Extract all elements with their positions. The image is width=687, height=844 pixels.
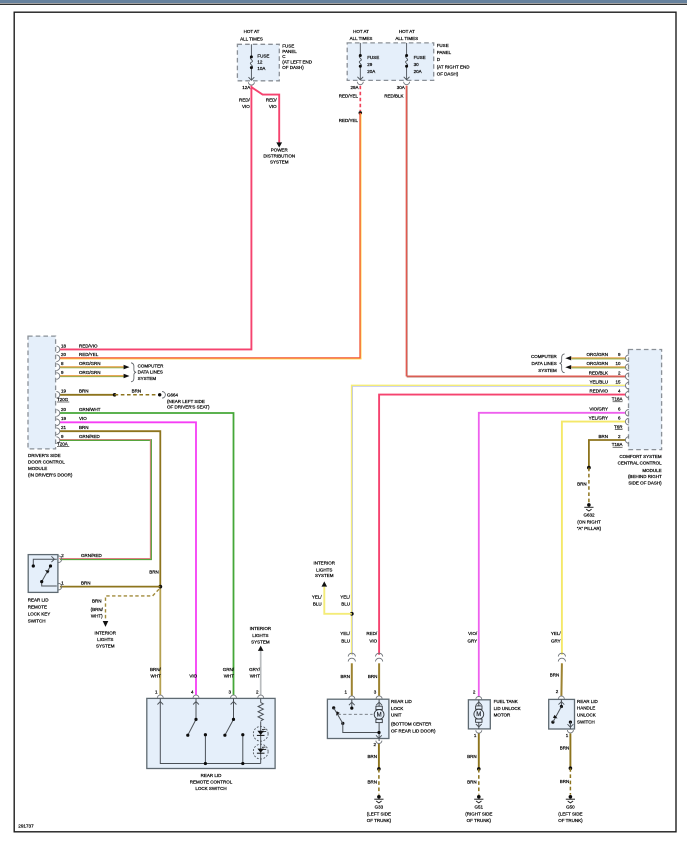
svg-text:OF REAR LID DOOR): OF REAR LID DOOR) (391, 728, 436, 733)
svg-text:M: M (476, 712, 481, 718)
svg-text:CENTRAL CONTROL: CENTRAL CONTROL (618, 461, 663, 466)
svg-text:BRN/: BRN/ (150, 667, 162, 672)
svg-text:RED/YEL: RED/YEL (79, 352, 99, 357)
svg-text:RED/BLK: RED/BLK (589, 370, 608, 375)
svg-text:LIGHTS: LIGHTS (252, 633, 268, 638)
svg-text:REAR LID: REAR LID (577, 699, 599, 704)
svg-text:WHT: WHT (151, 674, 161, 679)
svg-text:ORG/GRN: ORG/GRN (79, 361, 101, 366)
svg-text:MODULE: MODULE (642, 468, 661, 473)
svg-text:PANEL: PANEL (437, 50, 452, 55)
svg-text:ALL TIMES: ALL TIMES (395, 36, 418, 41)
svg-text:20A: 20A (367, 69, 375, 74)
svg-text:DATA LINES: DATA LINES (138, 370, 163, 375)
svg-text:SYSTEM: SYSTEM (270, 159, 289, 164)
svg-text:GRN/RED: GRN/RED (79, 434, 101, 439)
svg-text:PANEL: PANEL (282, 49, 297, 54)
svg-text:RED/VIO: RED/VIO (589, 389, 608, 394)
svg-text:SWITCH: SWITCH (577, 719, 595, 724)
svg-text:LID UNLOCK: LID UNLOCK (494, 706, 521, 711)
svg-text:COMFORT SYSTEM: COMFORT SYSTEM (619, 454, 662, 459)
svg-text:REMOTE CONTROL: REMOTE CONTROL (190, 779, 233, 784)
svg-text:HANDLE: HANDLE (577, 706, 595, 711)
svg-text:OF TRUNK): OF TRUNK) (467, 818, 492, 823)
svg-text:VIO: VIO (242, 104, 250, 109)
svg-text:YEL/BLU: YEL/BLU (589, 380, 608, 385)
svg-text:RED/: RED/ (366, 631, 378, 636)
svg-text:(AT LEFT END: (AT LEFT END (282, 59, 313, 64)
svg-text:RED/YEL: RED/YEL (339, 94, 359, 99)
svg-text:(BEHIND RIGHT: (BEHIND RIGHT (628, 474, 662, 479)
svg-text:(IN DRIVER'S DOOR): (IN DRIVER'S DOOR) (28, 473, 73, 478)
svg-text:VIO: VIO (269, 104, 277, 109)
svg-text:291737: 291737 (18, 824, 34, 829)
svg-text:GRN/: GRN/ (223, 667, 235, 672)
svg-text:29: 29 (367, 62, 373, 67)
svg-text:ORG/GRN: ORG/GRN (586, 352, 608, 357)
svg-text:POWER: POWER (271, 148, 289, 153)
svg-text:FUSE: FUSE (257, 54, 269, 59)
svg-text:G33: G33 (375, 805, 384, 810)
svg-text:HOT AT: HOT AT (353, 29, 369, 34)
svg-text:(ON RIGHT: (ON RIGHT (577, 520, 601, 525)
svg-text:RED/YEL: RED/YEL (339, 118, 359, 123)
svg-text:LIGHTS: LIGHTS (316, 567, 332, 572)
svg-text:RED/: RED/ (266, 98, 278, 103)
svg-text:T20A: T20A (57, 442, 68, 447)
svg-text:BRN: BRN (367, 779, 377, 784)
svg-text:20: 20 (61, 352, 67, 357)
svg-text:(NEAR LEFT SIDE: (NEAR LEFT SIDE (167, 399, 205, 404)
svg-text:OF DASH): OF DASH) (282, 65, 304, 70)
svg-text:DRIVER'S SIDE: DRIVER'S SIDE (28, 453, 61, 458)
svg-text:RED/: RED/ (239, 98, 251, 103)
svg-text:10: 10 (615, 361, 621, 366)
svg-text:BRN: BRN (560, 745, 570, 750)
svg-text:BRN: BRN (560, 779, 570, 784)
svg-text:COMPUTER: COMPUTER (138, 363, 165, 368)
svg-text:G632: G632 (583, 513, 595, 518)
svg-text:DOOR CONTROL: DOOR CONTROL (28, 460, 65, 465)
svg-text:VIO/: VIO/ (468, 631, 478, 636)
svg-text:G664: G664 (167, 392, 179, 397)
svg-text:BLU: BLU (341, 638, 350, 643)
svg-text:BRN: BRN (467, 779, 477, 784)
svg-text:M: M (377, 713, 382, 719)
svg-text:(LEFT SIDE: (LEFT SIDE (367, 812, 391, 817)
svg-text:BRN: BRN (340, 674, 350, 679)
svg-text:BRN: BRN (367, 754, 377, 759)
svg-text:DATA LINES: DATA LINES (531, 361, 556, 366)
svg-text:LIGHTS: LIGHTS (97, 637, 113, 642)
svg-text:12A: 12A (242, 85, 250, 90)
svg-text:BRN: BRN (149, 570, 159, 575)
svg-text:DISTRIBUTION: DISTRIBUTION (263, 154, 295, 159)
svg-text:REAR LID: REAR LID (391, 699, 413, 704)
svg-text:BRN: BRN (368, 674, 378, 679)
svg-text:LOCK SWITCH: LOCK SWITCH (195, 786, 226, 791)
svg-text:ORG/GRN: ORG/GRN (79, 370, 101, 375)
svg-text:YEL/: YEL/ (340, 631, 351, 636)
svg-text:INTERIOR: INTERIOR (313, 560, 335, 565)
svg-text:29A: 29A (350, 85, 358, 90)
svg-text:BRN: BRN (79, 389, 89, 394)
svg-text:BRN: BRN (467, 754, 477, 759)
svg-text:T18A: T18A (612, 397, 623, 402)
svg-text:YEL/: YEL/ (312, 595, 323, 600)
svg-text:FUSE: FUSE (367, 55, 379, 60)
svg-text:19: 19 (61, 389, 67, 394)
svg-text:RED/BLK: RED/BLK (384, 94, 403, 99)
svg-text:VIO: VIO (189, 674, 197, 679)
svg-text:HOT AT: HOT AT (244, 29, 260, 34)
svg-text:GRY: GRY (468, 638, 478, 643)
svg-text:HOT AT: HOT AT (399, 29, 415, 34)
svg-text:YEL/: YEL/ (340, 595, 351, 600)
svg-text:18: 18 (61, 343, 67, 348)
svg-text:LOCK: LOCK (391, 706, 403, 711)
svg-text:12: 12 (257, 60, 263, 65)
svg-text:LOCK KEY: LOCK KEY (28, 612, 51, 617)
svg-text:20A: 20A (414, 69, 422, 74)
svg-text:GRN/WHT: GRN/WHT (79, 407, 101, 412)
svg-text:BRN: BRN (598, 434, 608, 439)
svg-text:(BRN/: (BRN/ (91, 607, 104, 612)
svg-text:21: 21 (61, 425, 67, 430)
svg-text:YEL/GRY: YEL/GRY (589, 416, 608, 421)
svg-text:BRN: BRN (550, 673, 560, 678)
svg-text:(LEFT SIDE: (LEFT SIDE (558, 812, 582, 817)
svg-text:GRY: GRY (551, 638, 561, 643)
svg-text:OF DRIVER'S SEAT): OF DRIVER'S SEAT) (167, 405, 210, 410)
svg-text:20: 20 (61, 407, 67, 412)
svg-text:BLU: BLU (313, 602, 322, 607)
svg-text:VIO: VIO (79, 416, 87, 421)
svg-text:SYSTEM: SYSTEM (96, 644, 115, 649)
svg-text:FUSE: FUSE (414, 55, 426, 60)
svg-text:SYSTEM: SYSTEM (138, 376, 157, 381)
svg-text:RED/VIO: RED/VIO (79, 343, 98, 348)
svg-text:10A: 10A (257, 66, 265, 71)
svg-text:VIO/GRY: VIO/GRY (589, 407, 608, 412)
svg-text:GRN/RED: GRN/RED (81, 553, 103, 558)
svg-text:SIDE OF DASH): SIDE OF DASH) (628, 480, 662, 485)
svg-text:G51: G51 (475, 805, 484, 810)
svg-text:WHT: WHT (224, 674, 234, 679)
svg-text:WHT): WHT) (91, 614, 103, 619)
svg-text:GRY/: GRY/ (249, 667, 261, 672)
svg-text:SYSTEM: SYSTEM (315, 573, 334, 578)
svg-text:YEL/: YEL/ (551, 631, 562, 636)
svg-text:OF TRUNK): OF TRUNK) (367, 818, 392, 823)
svg-text:REAR LID: REAR LID (28, 598, 50, 603)
svg-text:SYSTEM: SYSTEM (538, 368, 557, 373)
svg-text:INTERIOR: INTERIOR (94, 631, 116, 636)
svg-text:COMPUTER: COMPUTER (531, 354, 558, 359)
svg-text:ORG/GRN: ORG/GRN (586, 361, 608, 366)
svg-text:ALL TIMES: ALL TIMES (350, 36, 373, 41)
svg-text:(RIGHT SIDE: (RIGHT SIDE (465, 812, 492, 817)
svg-text:ALL TIMES: ALL TIMES (240, 36, 263, 41)
svg-text:INTERIOR: INTERIOR (250, 626, 272, 631)
svg-text:BRN: BRN (79, 425, 89, 430)
svg-text:SWITCH: SWITCH (28, 619, 46, 624)
svg-text:FUEL TANK: FUEL TANK (494, 699, 518, 704)
svg-text:15: 15 (615, 380, 621, 385)
svg-text:REAR LID: REAR LID (201, 773, 223, 778)
svg-text:T20G: T20G (57, 397, 69, 402)
svg-text:“A” PILLAR): “A” PILLAR) (577, 526, 602, 531)
svg-text:G50: G50 (566, 805, 575, 810)
svg-text:UNLOCK: UNLOCK (577, 713, 596, 718)
svg-text:WHT: WHT (250, 674, 260, 679)
svg-text:T18A: T18A (612, 442, 623, 447)
svg-text:30A: 30A (397, 85, 405, 90)
svg-text:BLU: BLU (341, 602, 350, 607)
svg-text:FUSE: FUSE (437, 43, 449, 48)
svg-text:BRN: BRN (92, 598, 102, 603)
svg-text:MODULE: MODULE (28, 466, 47, 471)
svg-text:(AT RIGHT END: (AT RIGHT END (437, 64, 471, 69)
svg-text:(BOTTOM CENTER: (BOTTOM CENTER (391, 722, 432, 727)
svg-text:SYSTEM: SYSTEM (251, 639, 270, 644)
svg-text:BRN: BRN (577, 482, 587, 487)
svg-text:REMOTE: REMOTE (28, 605, 47, 610)
svg-text:T6R: T6R (614, 424, 623, 429)
svg-text:BRN: BRN (81, 580, 91, 585)
svg-text:19: 19 (61, 416, 67, 421)
svg-text:30: 30 (414, 62, 420, 67)
svg-text:UNIT: UNIT (391, 713, 402, 718)
svg-text:MOTOR: MOTOR (494, 713, 511, 718)
svg-text:BRN: BRN (132, 389, 142, 394)
svg-text:OF TRUNK): OF TRUNK) (558, 818, 583, 823)
svg-text:OF DASH): OF DASH) (437, 72, 459, 77)
svg-text:VIO: VIO (369, 638, 377, 643)
